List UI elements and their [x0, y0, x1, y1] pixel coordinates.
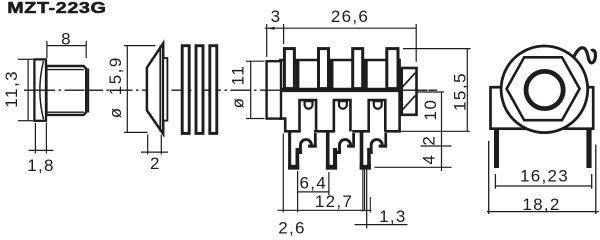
svg-text:ø 15,9: ø 15,9 — [106, 56, 125, 118]
svg-text:ø 11: ø 11 — [229, 65, 248, 109]
svg-text:3: 3 — [271, 7, 282, 26]
svg-text:8: 8 — [61, 29, 72, 48]
svg-text:2: 2 — [150, 154, 161, 173]
svg-text:6,4: 6,4 — [300, 173, 328, 192]
svg-text:2: 2 — [419, 135, 438, 146]
svg-text:4: 4 — [419, 154, 438, 165]
svg-text:15,5: 15,5 — [451, 72, 470, 111]
svg-text:11,3: 11,3 — [2, 70, 21, 108]
svg-text:MZT-223G: MZT-223G — [7, 0, 106, 17]
svg-text:2,6: 2,6 — [278, 219, 306, 238]
svg-text:26,6: 26,6 — [331, 7, 369, 26]
svg-text:1,3: 1,3 — [379, 207, 407, 226]
svg-text:16,23: 16,23 — [520, 166, 569, 185]
svg-text:12,7: 12,7 — [315, 192, 353, 211]
svg-text:10: 10 — [421, 99, 440, 121]
svg-text:18,2: 18,2 — [522, 195, 560, 214]
svg-text:1,8: 1,8 — [27, 156, 55, 175]
